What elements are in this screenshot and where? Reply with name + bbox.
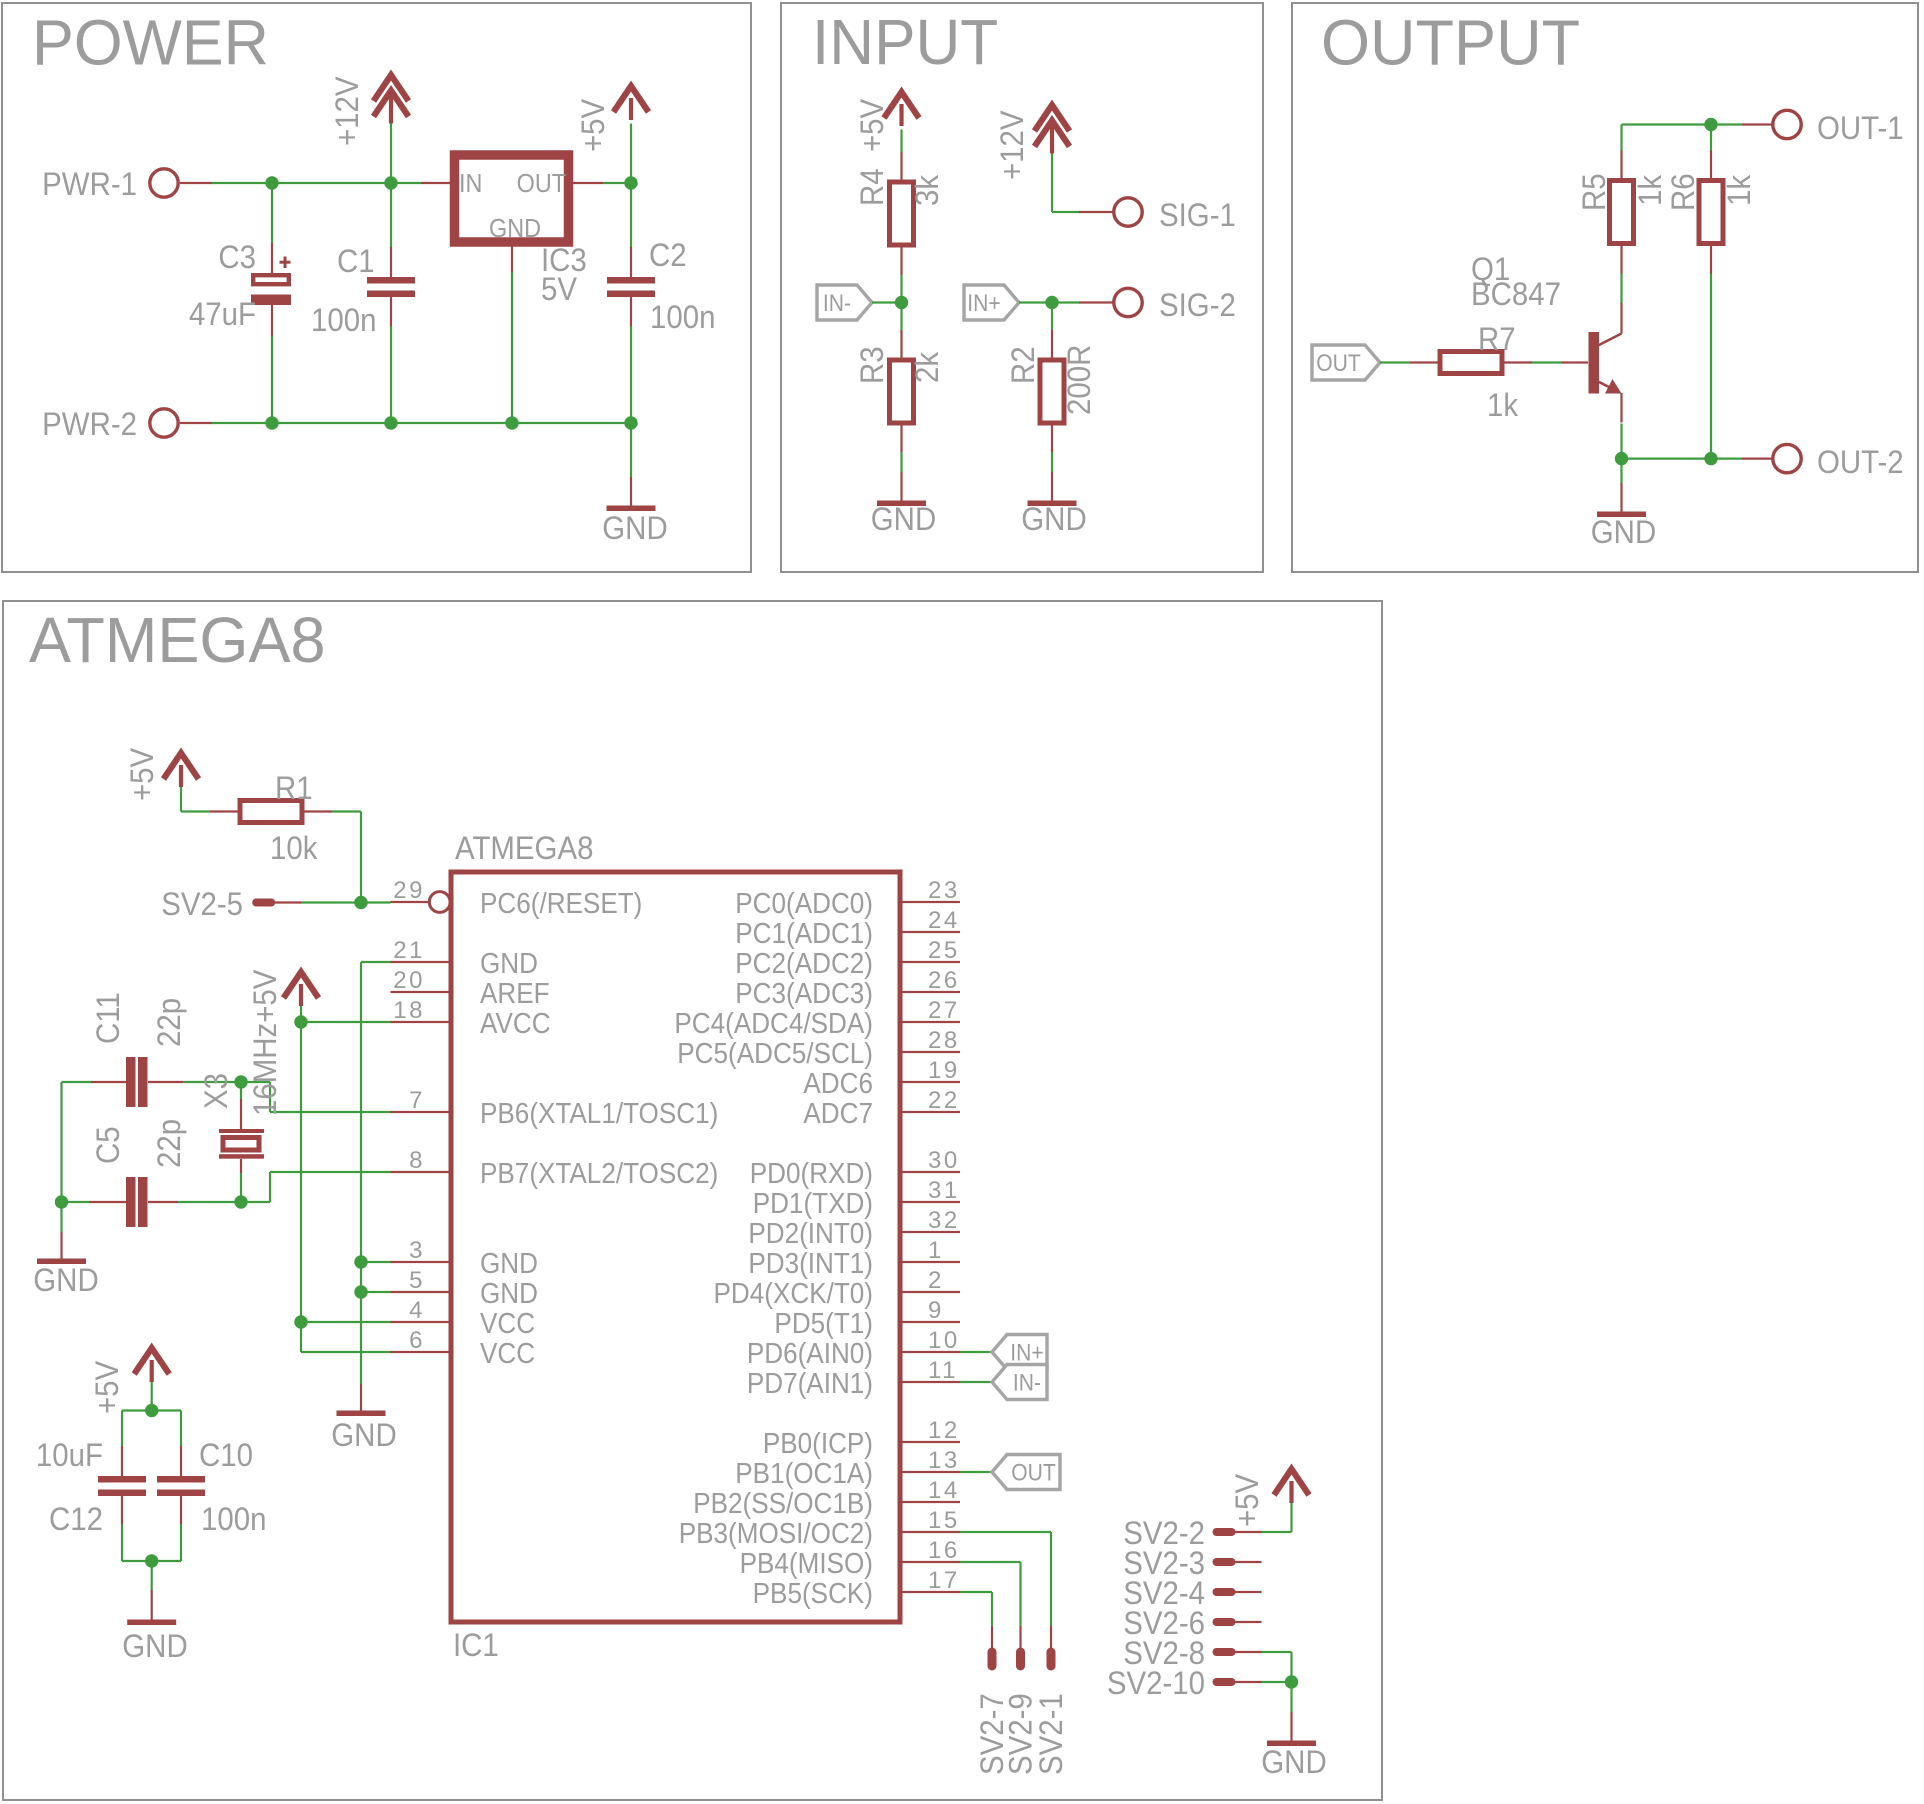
svg-text:+5V: +5V [575,98,611,152]
svg-text:10k: 10k [270,830,318,866]
svg-text:GND: GND [331,1417,396,1453]
svg-text:PB1(OC1A): PB1(OC1A) [735,1457,873,1490]
svg-text:22: 22 [928,1087,960,1114]
svg-text:GND: GND [1591,514,1656,550]
svg-text:26: 26 [928,967,960,994]
svg-text:14: 14 [928,1477,960,1504]
svg-text:SV2-5: SV2-5 [161,886,243,922]
svg-text:10uF: 10uF [36,1437,103,1473]
svg-text:PWR-2: PWR-2 [42,406,137,442]
svg-text:+5V: +5V [854,98,890,152]
svg-text:C3: C3 [218,239,256,275]
svg-text:PWR-1: PWR-1 [42,166,137,202]
svg-text:PC1(ADC1): PC1(ADC1) [735,917,873,950]
svg-text:R1: R1 [275,770,313,806]
svg-text:R5: R5 [1576,173,1612,211]
svg-text:PC6(/RESET): PC6(/RESET) [480,887,642,920]
svg-text:3: 3 [409,1237,425,1264]
svg-text:GND: GND [1261,1744,1326,1780]
svg-text:PB2(SS/OC1B): PB2(SS/OC1B) [693,1487,873,1520]
svg-text:VCC: VCC [480,1337,535,1370]
svg-text:C5: C5 [90,1126,126,1164]
svg-text:PD6(AIN0): PD6(AIN0) [747,1337,873,1370]
svg-text:12: 12 [928,1417,960,1444]
svg-text:VCC: VCC [480,1307,535,1340]
svg-text:19: 19 [928,1057,960,1084]
svg-text:PD2(INT0): PD2(INT0) [748,1217,873,1250]
svg-text:POWER: POWER [32,8,269,79]
svg-text:27: 27 [928,997,960,1024]
svg-text:GND: GND [871,501,936,537]
svg-text:22p: 22p [151,1119,187,1168]
svg-text:ATMEGA8: ATMEGA8 [455,830,593,866]
svg-text:OUT: OUT [1011,1459,1056,1486]
svg-text:29: 29 [393,877,425,904]
svg-text:IN: IN [459,170,482,198]
svg-text:GND: GND [480,1277,538,1310]
svg-text:GND: GND [489,215,541,243]
svg-text:C12: C12 [49,1501,103,1537]
svg-text:SIG-2: SIG-2 [1159,287,1236,323]
svg-text:PB4(MISO): PB4(MISO) [740,1547,873,1580]
svg-text:OUT: OUT [517,170,566,198]
svg-text:PC4(ADC4/SDA): PC4(ADC4/SDA) [674,1007,873,1040]
svg-text:PC2(ADC2): PC2(ADC2) [735,947,873,980]
svg-text:C11: C11 [90,992,126,1044]
svg-text:C1: C1 [337,243,375,279]
svg-text:PD0(RXD): PD0(RXD) [750,1157,873,1190]
svg-text:GND: GND [480,947,538,980]
svg-text:10: 10 [928,1327,960,1354]
svg-text:R6: R6 [1665,173,1701,211]
svg-text:23: 23 [928,877,960,904]
svg-text:GND: GND [1021,501,1086,537]
svg-text:1k: 1k [1632,174,1668,206]
svg-text:C10: C10 [199,1437,253,1473]
svg-text:PB3(MOSI/OC2): PB3(MOSI/OC2) [679,1517,873,1550]
svg-text:47uF: 47uF [189,296,256,332]
svg-text:ADC6: ADC6 [803,1067,873,1100]
svg-text:17: 17 [928,1567,960,1594]
svg-text:2: 2 [928,1267,944,1294]
svg-text:+5V: +5V [124,747,160,801]
svg-text:BC847: BC847 [1471,276,1561,312]
svg-text:R3: R3 [854,346,890,384]
svg-text:GND: GND [602,510,667,546]
svg-text:OUT: OUT [1316,350,1361,377]
svg-text:OUTPUT: OUTPUT [1321,7,1580,79]
svg-text:100n: 100n [311,302,376,338]
svg-text:1: 1 [928,1237,944,1264]
svg-text:25: 25 [928,937,960,964]
svg-text:+12V: +12V [329,76,365,146]
svg-text:PD1(TXD): PD1(TXD) [753,1187,873,1220]
svg-text:3k: 3k [909,174,945,206]
svg-text:PD5(T1): PD5(T1) [774,1307,873,1340]
svg-text:X3: X3 [198,1073,234,1109]
svg-text:IN-: IN- [823,290,851,317]
svg-text:OUT-1: OUT-1 [1817,110,1904,146]
svg-text:1k: 1k [1487,387,1519,423]
svg-text:SV2-10: SV2-10 [1107,1665,1205,1701]
svg-text:31: 31 [928,1177,960,1204]
svg-text:18: 18 [393,997,425,1024]
svg-text:GND: GND [480,1247,538,1280]
svg-text:+5V: +5V [89,1360,125,1414]
svg-text:SIG-1: SIG-1 [1159,197,1236,233]
svg-text:1k: 1k [1721,174,1757,206]
svg-text:9: 9 [928,1297,944,1324]
svg-text:21: 21 [393,937,425,964]
svg-text:22p: 22p [151,998,187,1047]
svg-text:PB7(XTAL2/TOSC2): PB7(XTAL2/TOSC2) [480,1157,718,1190]
svg-text:4: 4 [409,1297,425,1324]
svg-text:PC3(ADC3): PC3(ADC3) [735,977,873,1010]
svg-text:8: 8 [409,1147,425,1174]
svg-text:AVCC: AVCC [480,1007,551,1040]
svg-text:5V: 5V [541,271,577,307]
svg-text:PB0(ICP): PB0(ICP) [763,1427,873,1460]
svg-text:32: 32 [928,1207,960,1234]
svg-text:30: 30 [928,1147,960,1174]
svg-text:100n: 100n [650,299,715,335]
svg-text:24: 24 [928,907,960,934]
svg-text:200R: 200R [1061,345,1097,415]
svg-text:100n: 100n [201,1501,266,1537]
svg-text:R2: R2 [1005,346,1041,384]
svg-text:AREF: AREF [480,977,550,1010]
svg-text:PD7(AIN1): PD7(AIN1) [747,1367,873,1400]
svg-text:GND: GND [33,1262,98,1298]
svg-text:ADC7: ADC7 [803,1097,873,1130]
svg-text:PC5(ADC5/SCL): PC5(ADC5/SCL) [677,1037,873,1070]
svg-text:15: 15 [928,1507,960,1534]
svg-text:IN+: IN+ [1010,1339,1043,1366]
svg-text:7: 7 [409,1087,425,1114]
svg-text:IC1: IC1 [453,1627,499,1663]
svg-text:OUT-2: OUT-2 [1817,444,1904,480]
svg-text:IN-: IN- [1013,1369,1041,1396]
svg-text:28: 28 [928,1027,960,1054]
svg-text:13: 13 [928,1447,960,1474]
svg-text:11: 11 [928,1357,958,1384]
svg-text:PC0(ADC0): PC0(ADC0) [735,887,873,920]
svg-text:PB5(SCK): PB5(SCK) [753,1577,873,1610]
svg-text:IN+: IN+ [967,290,1000,317]
svg-text:+12V: +12V [994,110,1030,180]
svg-text:16MHz+5V: 16MHz+5V [247,969,283,1116]
svg-text:R7: R7 [1478,321,1516,357]
svg-text:C2: C2 [649,237,687,273]
svg-text:2k: 2k [909,351,945,383]
svg-text:6: 6 [409,1327,425,1354]
svg-text:+5V: +5V [1229,1473,1265,1527]
svg-text:ATMEGA8: ATMEGA8 [29,605,326,677]
svg-text:GND: GND [122,1628,187,1664]
svg-text:PB6(XTAL1/TOSC1): PB6(XTAL1/TOSC1) [480,1097,718,1130]
svg-text:20: 20 [393,967,425,994]
svg-text:16: 16 [928,1537,960,1564]
svg-text:INPUT: INPUT [812,7,998,78]
svg-text:5: 5 [409,1267,425,1294]
svg-text:R4: R4 [854,168,890,206]
svg-text:PD3(INT1): PD3(INT1) [748,1247,873,1280]
svg-text:SV2-7: SV2-7 [974,1693,1010,1775]
svg-text:PD4(XCK/T0): PD4(XCK/T0) [714,1277,873,1310]
